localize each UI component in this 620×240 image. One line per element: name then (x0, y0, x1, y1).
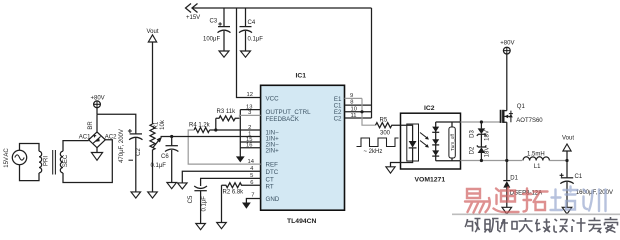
svg-text:7: 7 (251, 192, 254, 198)
potentiometer R1 10k (150, 119, 166, 150)
ground (C5) (196, 224, 206, 230)
watermark text line2 (465, 217, 618, 233)
svg-text:0.1μF: 0.1μF (151, 163, 167, 169)
wire gate drive (gray) (461, 121, 501, 123)
svg-text:18V: 18V (484, 130, 490, 141)
svg-text:18V: 18V (484, 147, 490, 158)
svg-text:2IN+: 2IN+ (266, 148, 280, 155)
svg-text:IC1: IC1 (296, 73, 307, 80)
svg-text:C3: C3 (210, 19, 218, 25)
svg-text:1600μF, 200V: 1600μF, 200V (576, 190, 613, 196)
svg-text:Turn_off: Turn_off (450, 133, 455, 151)
wire primary loop (20, 144, 40, 181)
wire pin16 2IN+ stub (240, 147, 260, 149)
zener D3 18V (470, 122, 491, 141)
wire pin13 OUTPUT_CTRL stub (240, 109, 260, 111)
wire +80V rail to C2 (97, 114, 136, 133)
svg-text:12: 12 (247, 92, 253, 98)
resistor R3 11k (216, 109, 240, 121)
wire E1/E2 tie (gray) (362, 98, 376, 125)
svg-text:RT: RT (266, 183, 274, 190)
node +80V flag (rectifier) (91, 95, 105, 114)
capacitor C5 0.1uF (188, 186, 207, 224)
node Vout arrow (right) (562, 135, 574, 160)
svg-text:REF: REF (266, 162, 279, 169)
watermark underline (452, 213, 620, 215)
svg-text:C5: C5 (188, 195, 194, 203)
photodiode stack (IC2) (432, 122, 439, 161)
transformer T1 core (53, 150, 56, 175)
node Vout sense arrow (left) (147, 29, 159, 124)
svg-text:C6: C6 (161, 154, 169, 160)
svg-text:AOT7S60: AOT7S60 (516, 118, 543, 124)
junction output node (565, 159, 568, 162)
capacitor C4 (239, 8, 263, 51)
wire secondary to AC1 (63, 141, 89, 152)
ground (IC1 GND) (242, 203, 251, 209)
wire BR minus down (96, 148, 98, 153)
wire node A to pin2 1IN- (210, 129, 261, 131)
wire pin5 CT to C5 (201, 178, 261, 186)
wire C2 pin11 (345, 117, 372, 119)
svg-text:R4 1.2k: R4 1.2k (189, 122, 211, 128)
ground (C2) (131, 192, 141, 198)
optocoupler IC2 VOM1271 body (401, 105, 461, 184)
pin labels IC1 left column (266, 96, 312, 204)
svg-text:R3 11k: R3 11k (217, 109, 237, 115)
svg-text:+15V: +15V (186, 15, 200, 21)
wire E2 pin10 (345, 111, 372, 113)
node A junction R3/R4 (214, 128, 217, 131)
ground (R2) (217, 223, 227, 229)
ground (BR) (91, 153, 102, 161)
svg-text:0.1μF: 0.1μF (201, 196, 207, 212)
capacitor C1 1600uF 200V (560, 161, 613, 208)
svg-text:CT: CT (266, 176, 274, 183)
wire wiper to pin1 1IN+ (161, 136, 261, 138)
svg-text:GND: GND (266, 196, 280, 203)
resistor R5 300 (376, 117, 401, 136)
wire E1 pin9 (gray) (345, 97, 363, 99)
pin numbers IC1 left (246, 92, 255, 198)
wire L1 to output node (gray) (549, 160, 567, 162)
wire VCC feed (237, 8, 261, 98)
svg-text:C2: C2 (136, 148, 142, 156)
wire R3 to node A vertical (215, 118, 217, 130)
wire BR plus up to +80V (96, 114, 98, 132)
svg-text:VOM1271: VOM1271 (415, 177, 446, 184)
svg-text:1.5mH: 1.5mH (527, 151, 545, 157)
svg-text:~ 2kHz: ~ 2kHz (364, 149, 383, 155)
diode D1 DSEP8-12A (503, 161, 542, 208)
ground (C3) (219, 51, 229, 57)
wire source to rail (506, 122, 508, 160)
pin numbers IC1 right (350, 93, 357, 119)
svg-text:D3: D3 (470, 130, 476, 138)
svg-text:C1: C1 (575, 174, 583, 180)
wire R2 to ground (221, 185, 223, 223)
wire IC2 LED cathode to ground (391, 148, 413, 167)
svg-text:FEEDBACK: FEEDBACK (266, 116, 300, 123)
transistor Q1 AOT7S60 (501, 104, 544, 124)
capacitor C2 470uF 200V (119, 129, 143, 192)
wire secondary to AC2 (63, 140, 112, 183)
svg-text:100μF: 100μF (203, 37, 220, 43)
svg-text:AC2: AC2 (105, 135, 117, 141)
node +15V flag (186, 4, 201, 22)
resistor R2 6.8k (222, 183, 261, 196)
turn-off block (IC2) (436, 122, 461, 161)
ground (DTC) (178, 183, 188, 189)
svg-text:OUTPUT_CTRL: OUTPUT_CTRL (266, 109, 312, 116)
light arrows (420, 133, 429, 148)
svg-text:15V AC: 15V AC (4, 148, 10, 168)
inductor L1 1.5mH (523, 151, 549, 170)
junction gate/zener (480, 120, 483, 123)
op-amp U1 body: IC1 TL494CN (261, 73, 345, 225)
AC source V1 15Vac (4, 148, 27, 168)
wire pin15 2IN- stub (240, 141, 260, 143)
wire IC2 LED anode (401, 125, 413, 141)
ground (C1 out) (562, 207, 572, 214)
ground (R1) (148, 192, 158, 198)
wire R4 to REF pin14 (gray) (188, 130, 260, 164)
svg-text:BR: BR (88, 121, 94, 130)
wire C1 pin8 (345, 104, 372, 106)
svg-text:PRI: PRI (43, 156, 49, 166)
wire pin7 GND (246, 199, 260, 203)
ground (IC2) (386, 167, 395, 173)
wire pin4 DTC to ground (182, 171, 260, 183)
svg-text:C4: C4 (248, 20, 256, 26)
svg-text:VCC: VCC (266, 96, 280, 103)
watermark logo text line1 (465, 187, 606, 213)
svg-text:Q1: Q1 (517, 104, 526, 110)
svg-text:300: 300 (380, 130, 391, 136)
waveform annotation ~2kHz (357, 138, 399, 155)
resistor R4 1.2k (189, 122, 211, 132)
zener D2 18V (470, 134, 491, 160)
svg-text:C2: C2 (334, 115, 342, 122)
ground (C6) (167, 183, 177, 189)
wire FEEDBACK pin3 (gray) (240, 115, 261, 118)
svg-text:D2: D2 (470, 146, 476, 154)
svg-text:0.1μF: 0.1μF (248, 37, 264, 43)
LED D_in (IC2 input) (409, 141, 417, 148)
node +80V flag (drain) (500, 41, 514, 54)
wire rail to C1/C2 pins drop (371, 8, 373, 118)
svg-text:DTC: DTC (266, 169, 279, 176)
junction E1/E2 (360, 110, 363, 113)
junction zener/rail (480, 159, 483, 162)
ground (C4) (241, 51, 251, 57)
wire R1 bottom to ground (152, 150, 154, 193)
svg-text:D1: D1 (510, 175, 518, 181)
ground (pins 13,15,16) (236, 156, 245, 162)
junction C6 tap (170, 135, 173, 138)
transformer T1 secondary winding (60, 151, 69, 173)
wire drain to +80V (506, 54, 508, 111)
transformer T1 primary winding (39, 151, 49, 173)
pin labels IC1 right column (334, 96, 342, 123)
wire switch-node rail (gray) (461, 160, 523, 162)
ground (D1) (502, 207, 512, 214)
svg-text:AC1: AC1 (79, 135, 91, 141)
svg-text:R2 6.8k: R2 6.8k (223, 190, 245, 196)
svg-text:TL494CN: TL494CN (287, 218, 317, 225)
capacitor C6 0.1uF (151, 137, 179, 183)
wire 13/15/16 ground vertical (239, 110, 241, 157)
svg-text:10k: 10k (160, 119, 166, 130)
svg-text:470μF, 200V: 470μF, 200V (119, 129, 125, 163)
wire +15V rail (192, 7, 372, 9)
svg-text:L1: L1 (534, 164, 541, 170)
junction Q1-source/D1/rail (505, 159, 508, 162)
capacitor C3 (203, 8, 231, 51)
svg-text:Vout: Vout (562, 135, 574, 141)
svg-text:R1: R1 (154, 121, 160, 129)
svg-text:+80V: +80V (500, 41, 514, 47)
bridge rectifier BR (79, 121, 117, 148)
svg-text:SEC: SEC (63, 154, 69, 167)
svg-text:IC2: IC2 (424, 105, 435, 112)
svg-text:R5: R5 (380, 117, 388, 123)
